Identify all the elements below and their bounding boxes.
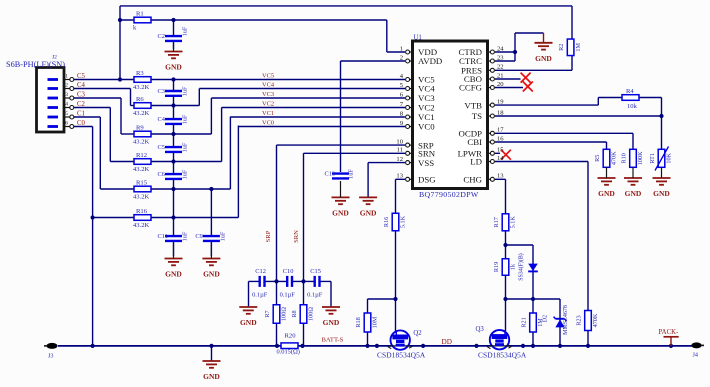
svg-text:MMSZ4678: MMSZ4678 xyxy=(563,305,569,335)
svg-text:43.2K: 43.2K xyxy=(133,194,150,201)
svg-text:1uF: 1uF xyxy=(182,86,189,96)
svg-text:VC1: VC1 xyxy=(262,110,274,117)
svg-text:R9: R9 xyxy=(136,124,144,131)
svg-text:R6: R6 xyxy=(136,96,144,103)
svg-text:10: 10 xyxy=(396,139,403,146)
svg-text:CBI: CBI xyxy=(467,137,482,147)
svg-text:C3: C3 xyxy=(77,92,86,99)
svg-text:S6B-PH(LF)(SN): S6B-PH(LF)(SN) xyxy=(6,60,65,69)
svg-text:1uF: 1uF xyxy=(182,169,189,179)
svg-text:R23: R23 xyxy=(575,315,582,325)
svg-text:GND: GND xyxy=(332,208,349,217)
svg-text:12: 12 xyxy=(396,156,403,163)
svg-text:GND: GND xyxy=(653,189,670,198)
svg-text:CSD18534Q5A: CSD18534Q5A xyxy=(377,351,426,360)
svg-text:C3: C3 xyxy=(158,88,165,95)
svg-text:18: 18 xyxy=(497,109,504,116)
svg-text:VC4: VC4 xyxy=(262,82,275,89)
svg-text:VC5: VC5 xyxy=(262,73,274,80)
svg-text:100Ω: 100Ω xyxy=(281,307,288,321)
svg-text:1uF: 1uF xyxy=(219,231,226,241)
svg-text:U1: U1 xyxy=(414,35,422,42)
svg-text:RT1: RT1 xyxy=(649,153,656,164)
svg-text:1uF: 1uF xyxy=(182,26,189,36)
svg-text:GND: GND xyxy=(240,318,257,327)
svg-text:24: 24 xyxy=(497,45,504,52)
svg-text:100K: 100K xyxy=(637,151,644,165)
svg-text:6: 6 xyxy=(65,121,68,127)
svg-text:BATT-S: BATT-S xyxy=(322,337,344,344)
svg-text:R10: R10 xyxy=(620,153,627,163)
svg-text:R8: R8 xyxy=(291,310,298,317)
svg-text:R15: R15 xyxy=(136,179,148,186)
svg-text:D2: D2 xyxy=(543,315,549,322)
svg-text:17: 17 xyxy=(497,127,504,134)
svg-text:1: 1 xyxy=(65,74,68,80)
svg-text:16: 16 xyxy=(497,135,504,142)
svg-text:AVDD: AVDD xyxy=(418,56,442,66)
svg-text:C5: C5 xyxy=(158,144,165,151)
svg-text:Q3: Q3 xyxy=(476,326,485,333)
svg-text:J3: J3 xyxy=(48,353,54,360)
svg-text:VC3: VC3 xyxy=(262,91,274,98)
svg-text:VSS: VSS xyxy=(418,158,434,168)
svg-text:GND: GND xyxy=(360,208,377,217)
svg-text:C15: C15 xyxy=(310,268,321,275)
svg-text:0.1µF: 0.1µF xyxy=(280,291,296,298)
svg-text:GND: GND xyxy=(598,189,615,198)
svg-text:20: 20 xyxy=(497,81,504,88)
svg-text:15: 15 xyxy=(497,147,504,154)
svg-text:10K: 10K xyxy=(666,152,673,163)
svg-text:R19: R19 xyxy=(493,262,500,272)
svg-text:R16: R16 xyxy=(383,217,390,227)
svg-text:22: 22 xyxy=(497,64,504,71)
svg-text:C6: C6 xyxy=(158,171,165,178)
svg-text:J2: J2 xyxy=(52,55,57,61)
svg-text:CCFG: CCFG xyxy=(459,83,483,93)
svg-text:R12: R12 xyxy=(136,152,147,159)
svg-text:R3: R3 xyxy=(136,70,144,77)
svg-text:C12: C12 xyxy=(255,268,266,275)
svg-text:2: 2 xyxy=(65,83,68,89)
svg-text:3: 3 xyxy=(65,92,68,98)
svg-text:C9: C9 xyxy=(195,233,202,240)
svg-text:GND: GND xyxy=(165,63,182,72)
svg-text:2: 2 xyxy=(400,54,403,61)
svg-text:4: 4 xyxy=(65,102,68,108)
svg-text:GND: GND xyxy=(625,189,642,198)
svg-text:GND: GND xyxy=(165,270,182,279)
svg-text:10M: 10M xyxy=(372,316,379,328)
svg-text:Q2: Q2 xyxy=(413,330,422,337)
svg-text:C13: C13 xyxy=(325,171,336,178)
svg-text:C5: C5 xyxy=(77,73,86,80)
svg-text:C2: C2 xyxy=(77,101,86,108)
svg-text:13: 13 xyxy=(396,173,403,180)
svg-text:C11: C11 xyxy=(158,233,168,240)
svg-text:21: 21 xyxy=(497,72,504,79)
svg-text:10k: 10k xyxy=(627,103,638,110)
svg-text:43.2K: 43.2K xyxy=(133,84,150,91)
svg-text:R21: R21 xyxy=(520,317,527,327)
svg-text:14: 14 xyxy=(497,155,504,162)
svg-text:C4: C4 xyxy=(158,116,166,123)
svg-text:R18: R18 xyxy=(355,317,362,327)
svg-text:19: 19 xyxy=(497,99,504,106)
svg-text:5: 5 xyxy=(65,111,68,117)
svg-text:43.2K: 43.2K xyxy=(133,222,150,229)
svg-text:1k: 1k xyxy=(510,263,517,270)
svg-text:5.1K: 5.1K xyxy=(400,215,407,228)
svg-text:5.1K: 5.1K xyxy=(510,216,517,229)
svg-text:1uF: 1uF xyxy=(182,231,189,241)
svg-text:VC1: VC1 xyxy=(418,112,435,122)
svg-text:0.1µF: 0.1µF xyxy=(252,291,268,298)
svg-text:R16: R16 xyxy=(136,208,148,215)
svg-text:VC2: VC2 xyxy=(262,101,274,108)
svg-text:43.2K: 43.2K xyxy=(133,110,150,117)
svg-text:C0: C0 xyxy=(77,120,86,127)
svg-text:GND: GND xyxy=(535,54,552,63)
svg-text:SRN: SRN xyxy=(293,230,300,243)
svg-text:43.2K: 43.2K xyxy=(133,139,150,146)
svg-text:R20: R20 xyxy=(285,332,297,339)
svg-text:PACK-: PACK- xyxy=(659,329,680,336)
svg-text:SS34(F)(B): SS34(F)(B) xyxy=(518,253,525,281)
svg-text:C1: C1 xyxy=(77,111,85,118)
svg-text:C4: C4 xyxy=(77,82,86,89)
svg-text:GND: GND xyxy=(323,318,340,327)
svg-text:VC3: VC3 xyxy=(418,93,435,103)
svg-text:R7: R7 xyxy=(264,310,271,317)
svg-text:470K: 470K xyxy=(592,313,599,327)
svg-text:1uF: 1uF xyxy=(182,114,189,124)
svg-text:GND: GND xyxy=(203,372,220,381)
svg-text:0.1µF: 0.1µF xyxy=(307,291,323,298)
svg-text:13: 13 xyxy=(497,173,504,180)
svg-text:C2: C2 xyxy=(158,33,165,40)
svg-text:0.015(Ω): 0.015(Ω) xyxy=(277,348,300,355)
svg-text:11: 11 xyxy=(397,147,403,154)
svg-text:VC0: VC0 xyxy=(262,120,274,127)
svg-text:BQ7790502DPW: BQ7790502DPW xyxy=(419,190,479,199)
svg-text:470K: 470K xyxy=(611,151,618,165)
svg-text:1M: 1M xyxy=(575,43,582,52)
svg-text:1uF: 1uF xyxy=(182,142,189,152)
svg-text:R1: R1 xyxy=(136,10,144,17)
svg-text:R2: R2 xyxy=(558,44,565,51)
svg-text:1: 1 xyxy=(400,45,403,52)
svg-text:23: 23 xyxy=(497,54,504,61)
svg-text:100Ω: 100Ω xyxy=(308,307,315,321)
svg-text:VC0: VC0 xyxy=(418,122,435,132)
svg-text:SRP: SRP xyxy=(265,230,272,242)
svg-text:1uF: 1uF xyxy=(348,169,355,179)
svg-text:R17: R17 xyxy=(493,217,500,227)
svg-text:VC2: VC2 xyxy=(418,103,435,113)
svg-text:CHG: CHG xyxy=(463,175,482,185)
svg-text:DD: DD xyxy=(442,338,452,346)
svg-text:VC4: VC4 xyxy=(418,84,435,94)
svg-text:GND: GND xyxy=(203,270,220,279)
svg-text:J4: J4 xyxy=(693,352,699,359)
svg-text:R5: R5 xyxy=(594,155,601,162)
svg-text:TS: TS xyxy=(472,111,482,121)
svg-text:C10: C10 xyxy=(283,268,294,275)
svg-text:VTB: VTB xyxy=(464,100,482,110)
svg-text:LD: LD xyxy=(470,157,482,167)
svg-text:DSG: DSG xyxy=(418,175,436,185)
svg-text:R4: R4 xyxy=(626,88,634,95)
svg-text:CSD18534Q5A: CSD18534Q5A xyxy=(478,351,527,360)
svg-text:43.2K: 43.2K xyxy=(133,166,150,173)
